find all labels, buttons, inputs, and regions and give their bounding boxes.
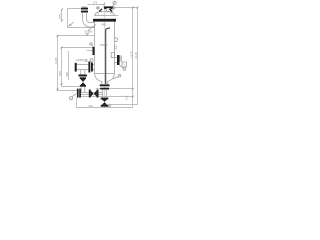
svg-text:1135: 1135 — [54, 57, 58, 64]
svg-text:480: 480 — [102, 22, 107, 26]
svg-text:N3Ø50: N3Ø50 — [76, 59, 85, 62]
svg-text:N5Ø40: N5Ø40 — [100, 44, 109, 47]
svg-text:575: 575 — [58, 14, 62, 19]
svg-text:855: 855 — [58, 71, 62, 76]
svg-text:390: 390 — [65, 72, 69, 77]
svg-text:1440: 1440 — [134, 52, 138, 59]
svg-text:175: 175 — [93, 0, 98, 4]
svg-text:540: 540 — [89, 104, 94, 108]
svg-text:150: 150 — [125, 95, 129, 100]
svg-text:1275: 1275 — [129, 51, 133, 58]
